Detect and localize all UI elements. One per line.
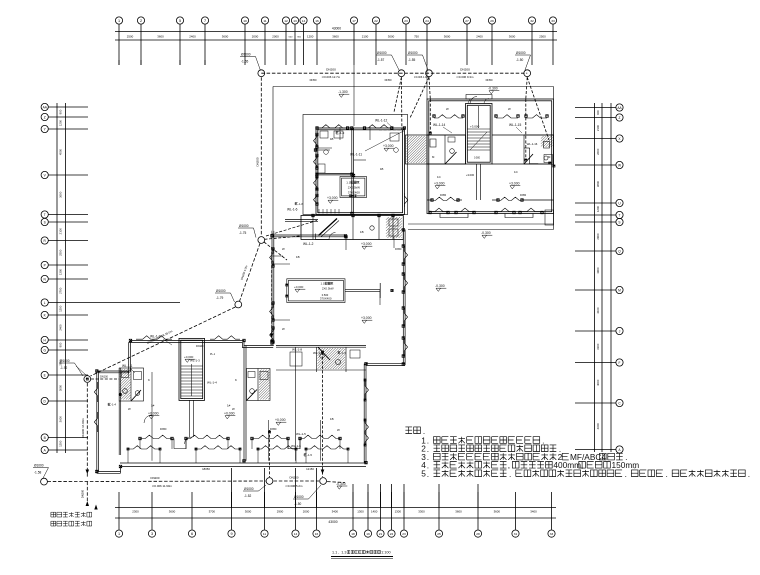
terrace edge below right block [408,223,554,225]
svg-text:i=0.006 12.7m: i=0.006 12.7m [322,75,341,79]
svg-text:2400: 2400 [59,324,63,331]
svg-text:10: 10 [243,19,247,23]
wing door arc [329,233,336,240]
bottom axis grid with column bubbles and dimension lines [115,507,556,509]
svg-text:11: 11 [263,532,266,536]
tiny arrow marks [270,334,274,339]
svg-text:-0.300: -0.300 [488,87,498,91]
svg-text:1B: 1B [296,255,300,259]
svg-text:+3.000: +3.000 [466,173,475,177]
middle block left wall [271,231,273,344]
wing fixtures [370,226,374,230]
svg-text:3600: 3600 [455,509,462,513]
svg-text:1200: 1200 [59,119,63,126]
svg-text:+3.000: +3.000 [434,182,445,186]
svg-text:-1-4: -1-4 [111,403,117,407]
svg-text:6: 6 [191,532,193,536]
eave corner line right [553,87,555,100]
svg-text:Ø1000: Ø1000 [516,51,526,55]
svg-text:3800: 3800 [596,180,600,187]
svg-text:33: 33 [551,19,555,23]
svg-text:T: T [44,213,46,217]
door arc left unit [144,415,152,423]
svg-text:3000: 3000 [388,35,395,39]
svg-text:WL-1-4: WL-1-4 [207,381,217,385]
svg-text:23: 23 [404,19,408,23]
svg-text:B: B [44,436,46,440]
svg-text:i=0.006 9.3m: i=0.006 9.3m [457,75,474,79]
svg-text:3000: 3000 [59,384,63,391]
bottom-left block partitions [151,372,153,461]
bottom-left block right wall [363,364,365,463]
svg-text:WL-1-2: WL-1-2 [150,335,161,339]
svg-text:i=0.006 11.90m: i=0.006 11.90m [152,484,172,488]
svg-text:1.1: 1.1 [332,551,337,555]
balcony step right [505,214,533,218]
top-middle block partition vertical [351,128,353,214]
top-middle block main walls [316,128,404,215]
top-right block outer walls [427,99,554,214]
drain stack riser line A [322,352,324,477]
svg-text:11: 11 [263,19,266,23]
middle block interior stubs [272,263,290,265]
top-right block window zigzags bottom [430,208,448,211]
balcony step left [440,214,468,218]
extinguisher label M-1-5 [304,454,306,456]
drain stack dot [119,393,122,396]
svg-text:i=0.006 5.2m: i=0.006 5.2m [286,484,303,488]
inspection well W3 [426,70,433,77]
svg-text:DN50: DN50 [486,78,493,82]
svg-text:370X400: 370X400 [348,191,360,195]
svg-text:-1-6: -1-6 [298,202,304,206]
bottom-left block left wall [96,371,98,473]
svg-text:1B: 1B [330,137,334,141]
svg-text:DN200: DN200 [326,68,336,72]
svg-text:,: , [508,460,510,470]
svg-text:WL-1-15: WL-1-15 [509,123,521,127]
svg-text:P: P [44,263,46,267]
TM right unit fixtures [390,133,399,141]
middle block left wall columns [272,248,275,251]
bottom wing partitions [316,347,318,372]
drawing title [339,551,381,554]
svg-text:DN50: DN50 [385,78,392,82]
svg-text:2900: 2900 [596,233,600,240]
inspection well W1 [258,70,265,77]
svg-text:T: T [619,213,621,217]
svg-text:DN200: DN200 [81,489,85,498]
extinguisher label M-1-4 [338,352,340,354]
svg-text:W: W [446,107,449,111]
svg-text:1200: 1200 [307,35,314,39]
left unit bath cluster [119,368,143,401]
sewer diagonal W5b to W6 [91,307,236,376]
sewer bottom tail [327,481,345,484]
svg-text:-1.300: -1.300 [338,90,348,94]
roof eave line top [273,86,554,88]
bottom-left block window zigzags bottom [140,435,172,438]
svg-text:3600: 3600 [169,509,176,513]
BL wall posts [96,370,99,373]
svg-text:4000: 4000 [596,379,600,386]
svg-text:1B: 1B [380,167,384,171]
svg-text:DN50: DN50 [160,428,167,431]
top-right block bottom wall segments [427,199,432,201]
svg-text:0.500: 0.500 [322,293,329,297]
svg-text:DN200: DN200 [460,68,470,72]
top-middle block window zigzags left [314,135,317,148]
right bath cluster walls [524,135,554,164]
svg-text:14: 14 [294,532,298,536]
BL right wall window zigzags [365,380,368,400]
svg-text:S: S [618,220,620,224]
svg-text:2000: 2000 [303,509,310,513]
svg-text:1#: 1# [151,404,155,408]
svg-text:3600: 3600 [59,191,63,198]
equipment core with text U2 [340,177,367,198]
top-right block upper window row [432,197,458,200]
svg-text:-1.50: -1.50 [294,502,301,506]
bottom-left block window zigzags left [94,382,97,402]
svg-text:Ø1000: Ø1000 [216,289,226,293]
svg-text:1200: 1200 [59,305,63,312]
drop pipe from W3 [410,77,429,118]
bottom-left block top walls [97,341,274,372]
svg-text:S: S [44,220,46,224]
svg-text:K: K [148,378,150,382]
svg-text:Ø1000: Ø1000 [60,359,70,363]
svg-text:43000: 43000 [328,520,337,524]
svg-text:3900: 3900 [596,267,600,274]
svg-text:W: W [508,107,511,111]
svg-text:W: W [337,428,340,432]
middle block top wall [272,234,346,236]
stair core U4 bottom-left [179,338,205,400]
svg-text:3100: 3100 [596,343,600,350]
svg-text:DN50: DN50 [270,428,277,431]
svg-text:DN50: DN50 [520,194,527,197]
svg-text:2300: 2300 [132,509,139,513]
intermediate dim line right of plan [407,233,409,365]
svg-text:+3.000: +3.000 [383,144,394,148]
middle block left window zigzags [270,249,273,266]
svg-text:2500: 2500 [127,35,134,39]
svg-text:WL-1-1: WL-1-1 [122,364,133,368]
svg-text:3300: 3300 [418,509,425,513]
M block small stubs [272,255,283,257]
bottom-left block link wall to middle block [366,363,405,365]
svg-text:+0.000: +0.000 [224,412,235,416]
svg-text:Ø1000: Ø1000 [239,224,249,228]
TM left unit fixtures [320,131,328,138]
extinguisher label M-1-3 [336,132,338,134]
svg-text:400mm,: 400mm, [553,460,583,470]
svg-text:1300: 1300 [357,509,364,513]
drop pipe from W2 [394,77,401,112]
svg-text:WL-1-16: WL-1-16 [527,142,538,146]
inspection well W4 [524,70,531,77]
svg-text:23: 23 [402,532,406,536]
svg-text:1.3: 1.3 [341,551,346,555]
inspection well W5 [258,237,265,244]
svg-text:Z: Z [44,115,46,119]
svg-text:2100: 2100 [59,228,63,235]
svg-text:900: 900 [59,342,63,347]
bottom-left block bottom wall [120,462,366,464]
svg-text:2: 2 [140,19,142,23]
entry canopy top-right block [466,95,492,100]
svg-text:DN100: DN100 [196,345,204,348]
svg-text:WL-1-6: WL-1-6 [287,208,298,212]
branch pipes at W5 [264,242,287,260]
svg-text:3600: 3600 [444,35,451,39]
svg-text:-0.300: -0.300 [435,284,445,288]
top axis grid with column bubbles and dimension lines [115,31,557,33]
bottom wing bath fixtures [320,354,324,358]
stair corridor below core [476,164,478,200]
connection label sewer [51,512,92,517]
svg-text:+0.000: +0.000 [148,412,159,416]
top-right block interior wall line [427,134,466,136]
svg-text:1200: 1200 [59,440,63,447]
svg-text:3600: 3600 [157,35,164,39]
svg-text:-0.300: -0.300 [481,231,491,235]
svg-text:5: 5 [421,469,426,479]
svg-text:25: 25 [437,532,441,536]
extra riser leaders [163,339,172,345]
svg-text:-1-4: -1-4 [341,351,347,355]
svg-text:WL-1-5: WL-1-5 [296,432,306,436]
svg-text:1300: 1300 [395,509,402,513]
leader WL-1-11 to wall [365,131,405,152]
svg-text:DN50: DN50 [395,248,402,251]
svg-text:3000: 3000 [245,509,252,513]
svg-text:DN200: DN200 [151,476,160,480]
notes text block shuoming [405,427,424,434]
svg-text:+3.000: +3.000 [509,182,520,186]
svg-text:2500: 2500 [59,249,63,256]
wing pipe dashed [266,221,317,237]
svg-text:-1-5: -1-5 [307,453,313,457]
top-middle interior stubs [316,149,331,151]
svg-text:-1.57: -1.57 [377,58,384,62]
sewer left vertical main [86,383,88,478]
svg-text:3: 3 [151,532,153,536]
top-right block columns top row [433,115,436,118]
svg-text:+3.000: +3.000 [361,316,372,320]
svg-text:900: 900 [596,110,600,115]
middle block right window zigzags [404,246,407,264]
stair core U1 top-right [466,104,493,165]
svg-text:3600: 3600 [332,35,339,39]
svg-text:1: 1 [118,532,120,536]
inspection well W9 [320,478,327,485]
stair rungs TM bottom-left [318,209,320,214]
svg-text:DN50: DN50 [440,194,447,197]
sewer entry to building [91,378,119,380]
svg-text:+0.000: +0.000 [294,285,304,289]
middle core with text U3 [287,279,345,303]
bath partition wall [118,368,120,455]
svg-text:16: 16 [315,532,319,536]
svg-text:i=0.006 1.9m: i=0.006 1.9m [414,76,429,79]
svg-text:2400: 2400 [476,35,483,39]
svg-text:Ø1000: Ø1000 [34,464,44,468]
svg-text:+3.000: +3.000 [327,196,338,200]
drain stack riser line B [269,430,271,477]
stair core U4 corridor [189,400,191,437]
sewer bottom run [48,480,266,483]
svg-text:Ø1000: Ø1000 [377,51,387,55]
svg-text:19: 19 [366,532,370,536]
svg-text:WL-1-6: WL-1-6 [291,444,301,448]
svg-text:W: W [282,247,285,251]
svg-text:9: 9 [230,532,232,536]
svg-text:1400: 1400 [371,509,378,513]
second bath cluster [247,369,271,401]
entry door arc U1 [470,97,477,104]
svg-text:3600: 3600 [509,35,516,39]
svg-text:750: 750 [414,35,419,39]
svg-text:4500: 4500 [59,148,63,155]
small leader lines wells [76,366,86,375]
svg-text:1: 1 [118,19,120,23]
svg-text:Ø1000: Ø1000 [294,495,304,499]
top-middle block columns top [316,127,319,130]
svg-text:1200: 1200 [596,205,600,212]
middle block right wall columns [402,245,405,248]
svg-text:Ø1000: Ø1000 [408,51,418,55]
svg-text:W: W [128,407,131,411]
svg-text:32: 32 [530,19,534,23]
inspection well W2 [398,70,405,77]
svg-text:12150: 12150 [306,467,314,471]
svg-text:5: 5 [179,19,181,23]
top-middle block window zigzags top [317,125,348,128]
svg-text:4600: 4600 [596,423,600,430]
extinguisher label M-1-8 [108,403,110,405]
svg-text:W: W [232,407,235,411]
sewer main top run DN200 [261,72,527,74]
svg-text:3400: 3400 [332,509,339,513]
svg-text:18050: 18050 [202,467,210,471]
middle block corridor wall [345,289,380,291]
svg-text:1B: 1B [330,417,334,421]
svg-text:2100: 2100 [596,124,600,131]
svg-text:W: W [282,327,285,331]
inspection well W5b [235,301,242,308]
svg-text:DN200: DN200 [256,157,260,166]
svg-text:27: 27 [465,19,469,23]
inspection well W6 [84,376,91,383]
top-middle block partition horizontal [316,172,352,174]
bottom-left block columns bottom [139,437,142,440]
top-right block columns bottom row [429,211,432,214]
bottom zigzag connector stubs [139,439,141,450]
svg-text:3700: 3700 [209,509,216,513]
connection label storm [51,521,92,526]
left bath cluster walls [406,135,428,164]
svg-text:2600: 2600 [596,148,600,155]
svg-text:2X0.5kW: 2X0.5kW [348,186,360,190]
svg-text:WL-1-2: WL-1-2 [303,242,314,246]
svg-text:12: 12 [284,19,288,23]
eave line left side [272,87,274,231]
pipe dashed top-right TM [379,129,404,131]
svg-text:2700: 2700 [59,287,63,294]
svg-text:1.1: 1.1 [321,282,325,286]
svg-text:+3.000: +3.000 [470,125,480,129]
svg-text:Ø1000: Ø1000 [244,487,254,491]
svg-text:3400: 3400 [530,509,537,513]
svg-text:1#: 1# [227,404,231,408]
svg-text:-1.50: -1.50 [516,58,523,62]
svg-text:2400: 2400 [189,35,196,39]
svg-text:18: 18 [351,532,355,536]
bottom-left block unit partition [243,346,245,461]
svg-text:7: 7 [204,19,206,23]
svg-text:2000: 2000 [272,35,279,39]
svg-text:-1.75: -1.75 [239,231,246,235]
left axis grid with row bubbles and dimension lines [56,103,58,453]
middle block right wall [402,230,404,366]
small squares risers [321,351,323,353]
svg-text:17: 17 [352,19,356,23]
sewer diagonal W5 to W5b [240,243,261,301]
svg-text:22: 22 [390,532,394,536]
svg-text:+0.000: +0.000 [275,418,286,422]
svg-text:3600: 3600 [494,509,501,513]
svg-text:-1.58: -1.58 [34,470,41,474]
svg-text:0.500: 0.500 [474,157,481,160]
top-right block window zigzags top [434,115,463,118]
bottom-left block window zigzags top [136,336,172,339]
svg-text:K: K [235,378,237,382]
svg-text:16: 16 [315,19,319,23]
svg-text:M: M [618,288,621,292]
svg-text:DN200: DN200 [290,475,299,479]
svg-text:1300: 1300 [59,268,63,275]
svg-text:F: F [619,361,621,365]
svg-text:DN200 16.00m: DN200 16.00m [81,418,85,438]
svg-text:Z: Z [619,116,621,120]
balcony window zigzags lower row [128,446,160,449]
svg-text:E: E [44,373,46,377]
svg-text:370X400: 370X400 [320,297,332,301]
top-middle block columns left [316,133,319,136]
svg-text:33: 33 [550,532,554,536]
svg-text:22: 22 [374,19,378,23]
wing top-left wall [285,219,318,221]
svg-text:1:100: 1:100 [381,551,391,555]
svg-text:DN100: DN100 [100,375,108,378]
svg-text:1B: 1B [360,230,364,234]
svg-text:PL-1: PL-1 [210,353,216,356]
svg-text:2X0.5kW: 2X0.5kW [322,287,334,291]
bottom-left closure wall [97,471,121,473]
svg-text:WL-1-11: WL-1-11 [350,153,362,157]
wing stair diagonal [319,219,338,236]
svg-text:150mm: 150mm [612,460,640,470]
bottom wing top wall [276,344,366,346]
svg-text:-1.55: -1.55 [408,58,415,62]
svg-text:13: 13 [293,19,297,23]
svg-text:-1.65: -1.65 [241,59,248,63]
door arc BL core [185,437,192,444]
svg-text:900: 900 [59,109,63,114]
svg-text:3600: 3600 [222,35,229,39]
